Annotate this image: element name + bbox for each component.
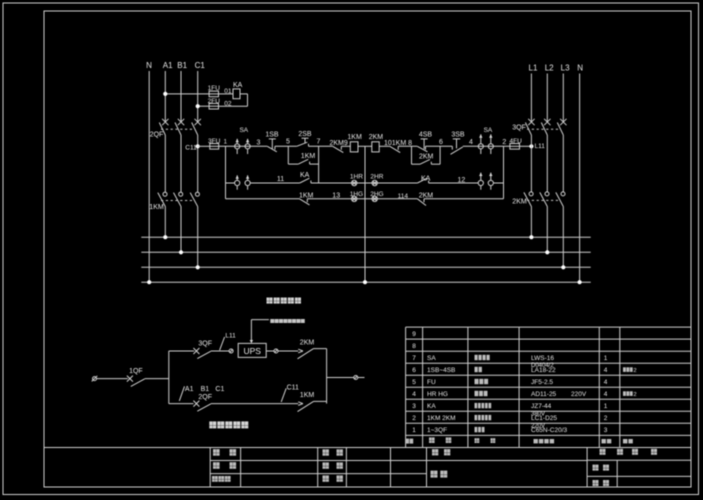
node A1 label xyxy=(163,61,173,70)
svg-text:1KM: 1KM xyxy=(347,134,362,141)
labels A1 B1 C1 one-line xyxy=(185,386,225,393)
wire L2 vertical middle xyxy=(546,135,548,192)
svg-text:220V: 220V xyxy=(571,391,587,398)
breaker 2QF pole A1 xyxy=(159,119,168,135)
contactor 1KM pole C1 xyxy=(190,192,199,206)
junction L2 bus2 xyxy=(545,250,549,254)
coil 2KM xyxy=(372,142,379,152)
table row 4 xyxy=(412,391,636,398)
UPS box xyxy=(238,343,266,357)
svg-text:A1: A1 xyxy=(163,61,173,70)
svg-text:SA: SA xyxy=(484,127,493,134)
table row 1 xyxy=(412,427,608,434)
node C1 label xyxy=(195,61,206,70)
breaker 3QF pole L2 xyxy=(541,119,550,135)
bus line 1 xyxy=(141,236,590,238)
wire node2 vertical xyxy=(503,146,505,199)
pushbutton 4SB NC contact xyxy=(417,146,427,152)
svg-text:8: 8 xyxy=(412,343,416,350)
svg-text:4: 4 xyxy=(604,391,608,398)
svg-text:AD11-25: AD11-25 xyxy=(531,391,557,398)
lamp 2HG xyxy=(372,196,377,201)
svg-text:1~3QF: 1~3QF xyxy=(427,427,447,434)
contact KA NO row2 left xyxy=(300,178,311,183)
svg-text:SA: SA xyxy=(239,127,248,134)
svg-text:1KM: 1KM xyxy=(300,392,315,399)
bus line 4 neutral xyxy=(141,281,590,283)
node 7 label xyxy=(317,138,321,145)
node L11 leader xyxy=(220,337,225,350)
wire A1 vertical lower xyxy=(164,207,166,238)
wire N right vertical xyxy=(579,74,581,283)
svg-text:1KM: 1KM xyxy=(301,153,316,160)
wire top branch left xyxy=(169,350,194,352)
UPS note text (Chinese) xyxy=(270,319,304,323)
svg-text:B1: B1 xyxy=(201,386,210,393)
svg-text:1HG: 1HG xyxy=(350,191,363,198)
svg-text:C1: C1 xyxy=(215,386,224,393)
table row 5 xyxy=(412,379,608,386)
terminal output xyxy=(354,376,358,380)
junction L3 bus3 xyxy=(561,265,565,269)
svg-text:2KM: 2KM xyxy=(419,153,434,160)
title one-line diagram (Chinese) xyxy=(209,421,248,428)
fuse 4FU label xyxy=(510,138,523,145)
contactor 1KM pole A1 xyxy=(158,192,167,206)
svg-text:380V: 380V xyxy=(531,411,545,417)
contact 1KM NC row3 xyxy=(300,199,310,205)
fuse 1FU label xyxy=(208,85,221,92)
bus line 2 xyxy=(141,251,590,253)
wire row2 left xyxy=(226,182,235,184)
wire branchB right vertical xyxy=(439,146,441,164)
terminal UPS output xyxy=(274,349,278,353)
title schematic diagram (Chinese) xyxy=(267,298,302,304)
svg-text:HR HG: HR HG xyxy=(427,391,448,398)
fuse 3FU label xyxy=(208,138,221,145)
wire neutral vertical xyxy=(364,146,366,282)
node 114 label xyxy=(398,193,409,200)
breaker 2QF pole B1 xyxy=(175,119,184,135)
wire row2 mid xyxy=(311,182,418,184)
svg-text:2KM: 2KM xyxy=(300,340,315,347)
svg-text:1SB~4SB: 1SB~4SB xyxy=(427,367,455,374)
contact 2KM NC row3 xyxy=(417,199,426,206)
wire A1 vertical middle xyxy=(164,135,166,192)
svg-text:2KM: 2KM xyxy=(369,134,384,141)
breaker 3QF pole L3 xyxy=(557,119,566,135)
node L3 label xyxy=(561,63,570,72)
contact KA label row2 left xyxy=(300,172,310,179)
breaker 1QF label xyxy=(129,368,143,375)
svg-text:L3: L3 xyxy=(561,63,570,72)
wire branchB bottom right xyxy=(431,163,440,165)
wire to 1KM coil xyxy=(341,145,350,147)
node L11 label xyxy=(535,143,546,150)
svg-text:N: N xyxy=(577,63,583,72)
svg-text:UPS: UPS xyxy=(243,346,261,356)
wire 2SB to 2KM interlock xyxy=(309,145,333,147)
svg-text:2QF: 2QF xyxy=(150,132,164,139)
svg-text:1: 1 xyxy=(412,427,416,434)
switch SA right contact a xyxy=(478,134,483,154)
svg-text:KA: KA xyxy=(421,175,431,182)
breaker 2QF one-line label xyxy=(198,394,212,401)
junction B1 bus2 xyxy=(179,250,183,254)
svg-text:114: 114 xyxy=(398,193,409,200)
svg-text:4: 4 xyxy=(604,367,608,374)
lamp 1HR label xyxy=(350,174,363,181)
bus line 3 xyxy=(141,266,590,268)
svg-text:5: 5 xyxy=(286,139,290,146)
svg-text:13: 13 xyxy=(332,193,340,200)
wire branchA bottom left xyxy=(288,163,298,165)
svg-text:1KM 2KM: 1KM 2KM xyxy=(427,415,456,422)
svg-text:7: 7 xyxy=(412,355,416,362)
node 02 label xyxy=(224,101,232,108)
switch SA right row2 contact b xyxy=(488,173,493,190)
wire L2 vertical lower xyxy=(546,207,548,253)
breaker 3QF one-line label xyxy=(198,341,212,348)
title block label jiao-dui xyxy=(323,449,343,455)
lamp 1HG label xyxy=(350,191,363,198)
contact 1KM NO label xyxy=(301,153,316,160)
wire row3 mid xyxy=(307,198,417,200)
fuse 2FU label xyxy=(208,98,221,105)
svg-text:2QF: 2QF xyxy=(198,394,212,401)
lamp 1HG xyxy=(352,196,357,201)
coil 1KM label xyxy=(347,134,362,141)
relay coil KA xyxy=(233,89,240,99)
node C11 leader xyxy=(281,388,286,402)
title block grid xyxy=(44,448,691,488)
svg-text:2HR: 2HR xyxy=(370,174,383,181)
node C11 label xyxy=(185,144,197,151)
contact 2KM NO aux xyxy=(420,159,431,164)
wire right collector vertical xyxy=(326,349,328,404)
wire 2QF to 1KM xyxy=(211,403,298,405)
wire 4FU to L1 xyxy=(520,145,532,147)
svg-text:1KM: 1KM xyxy=(149,204,164,211)
breaker 2QF label xyxy=(150,132,164,139)
svg-text:1: 1 xyxy=(604,355,608,362)
wire L3 vertical upper xyxy=(562,74,564,123)
wire C1 vertical lower xyxy=(197,207,199,268)
pushbutton 2SB cap xyxy=(302,138,309,143)
switch SA left label xyxy=(239,127,248,134)
svg-text:L11: L11 xyxy=(535,143,546,150)
wire 3FU to SA xyxy=(219,145,268,147)
svg-text:JF5-2.5: JF5-2.5 xyxy=(531,379,553,386)
wire L1 vertical middle xyxy=(530,135,532,192)
svg-text:2: 2 xyxy=(634,368,637,374)
wire split vertical xyxy=(168,351,170,404)
node 2 label xyxy=(502,139,506,146)
wire branchB bottom left xyxy=(412,163,421,165)
node L2 label xyxy=(545,63,554,72)
switch SA left row2 contact b xyxy=(245,175,250,189)
wire C11 to 3FU xyxy=(198,145,210,147)
title block label tu-hao xyxy=(593,480,610,486)
svg-text:3: 3 xyxy=(604,427,608,434)
node 13 label xyxy=(332,193,340,200)
node C11 one-line label xyxy=(287,384,299,391)
wire 1SB to 2SB xyxy=(275,145,297,147)
wire L1 vertical upper xyxy=(530,74,532,123)
svg-text:2: 2 xyxy=(502,139,506,146)
contactor 1KM linkage xyxy=(161,200,193,202)
svg-text:1QF: 1QF xyxy=(129,368,143,375)
svg-text:4: 4 xyxy=(469,139,473,146)
switch SA left row2 contact a xyxy=(235,175,240,189)
contact KA label row2 right xyxy=(421,175,431,182)
switch SA right contact b xyxy=(488,134,493,154)
pushbutton 3SB label xyxy=(451,131,465,138)
table row 6 xyxy=(412,367,636,374)
lamp 2HG label xyxy=(370,191,383,198)
wire UPS output xyxy=(266,350,274,352)
fuse 4FU xyxy=(510,144,520,150)
svg-text:4: 4 xyxy=(412,391,416,398)
svg-text:11: 11 xyxy=(277,176,284,183)
relay KA label xyxy=(233,82,243,89)
title block label zhi-tu xyxy=(323,475,343,481)
svg-text:4: 4 xyxy=(604,379,608,386)
nodes 10 1KM 8 label xyxy=(384,140,412,147)
wire L3 vertical lower xyxy=(562,207,564,268)
node 3 label xyxy=(257,139,261,146)
breaker 1QF xyxy=(127,376,145,387)
node 5 label xyxy=(286,139,290,146)
wire node7 vertical xyxy=(318,146,320,183)
table component list grid xyxy=(406,327,691,447)
contactor 2KM linkage xyxy=(527,199,559,201)
table header row xyxy=(406,437,633,443)
fuse 3FU xyxy=(210,144,219,150)
wire left feeder vertical xyxy=(225,146,227,199)
contact 1KM one-line xyxy=(298,401,327,411)
wire output stub xyxy=(358,377,365,379)
wire output xyxy=(327,377,354,379)
svg-text:1FU: 1FU xyxy=(208,85,221,92)
UPS note arrow xyxy=(250,320,269,344)
svg-text:L1: L1 xyxy=(529,63,538,72)
wire 3QF to UPS xyxy=(211,350,229,352)
svg-text:JZ7-44: JZ7-44 xyxy=(531,403,552,410)
lamp 1HR xyxy=(352,180,357,185)
svg-text:3QF: 3QF xyxy=(512,125,526,132)
switch SA right label xyxy=(484,127,493,134)
switch SA right row2 contact a xyxy=(478,173,483,190)
svg-text:3FU: 3FU xyxy=(208,138,221,145)
title block label sheets xyxy=(600,449,658,455)
svg-text:KA: KA xyxy=(427,403,436,410)
wire L1 vertical lower xyxy=(530,207,532,238)
contact 2KM NO label xyxy=(419,153,434,160)
wire C1 vertical middle xyxy=(197,135,199,192)
contact 2KM9 label xyxy=(330,140,348,147)
switch SA left contact b xyxy=(245,139,250,154)
svg-text:2HG: 2HG xyxy=(370,191,383,198)
svg-text:SA: SA xyxy=(427,355,436,362)
breaker 3QF linkage xyxy=(527,128,561,130)
svg-text:220V: 220V xyxy=(531,423,545,429)
terminal left xyxy=(92,376,98,382)
pushbutton 1SB NC contact xyxy=(267,146,277,152)
contact 1KM NC interlock xyxy=(390,146,400,152)
node L1 label xyxy=(529,63,538,72)
table row 3 xyxy=(412,403,608,417)
wire 4SB to 3SB xyxy=(426,145,453,147)
svg-text:N: N xyxy=(146,61,152,70)
node B1 label xyxy=(177,61,187,70)
contactor 2KM pole L3 xyxy=(556,192,565,207)
svg-text:12: 12 xyxy=(458,177,466,184)
svg-text:C1: C1 xyxy=(195,61,206,70)
breaker 2QF one-line xyxy=(193,401,211,412)
wire 2FU to C1 xyxy=(198,105,209,107)
junction C1 tap xyxy=(196,104,200,108)
svg-text:1SB: 1SB xyxy=(265,131,279,138)
wire C1 vertical upper xyxy=(197,71,199,122)
node 11 label xyxy=(277,176,284,183)
wire A1 to 1FU xyxy=(165,93,209,95)
contact 2KM one-line label xyxy=(300,340,315,347)
wire row3 left xyxy=(226,198,300,200)
node N right label xyxy=(577,63,583,72)
svg-text:3SB: 3SB xyxy=(451,131,465,138)
title block label fu-ze-ren xyxy=(212,476,231,482)
table row 2 xyxy=(412,415,608,429)
svg-text:KA: KA xyxy=(300,172,310,179)
contact 2KM one-line xyxy=(298,349,327,359)
wire 3SB to SA right xyxy=(463,145,510,147)
wire branchA bottom right xyxy=(310,163,319,165)
svg-text:LWS-16: LWS-16 xyxy=(531,355,554,362)
contact 2KM NC interlock xyxy=(333,146,344,152)
wire B1 vertical lower xyxy=(180,207,182,253)
svg-text:6: 6 xyxy=(439,139,443,146)
node L11 one-line label xyxy=(225,333,236,340)
pushbutton 1SB cap xyxy=(269,139,276,149)
wire A1 vertical upper xyxy=(164,71,166,122)
lamp 2HR xyxy=(372,180,377,185)
pushbutton 4SB label xyxy=(419,132,433,139)
node 1 label xyxy=(224,139,228,145)
node 01 label xyxy=(224,88,232,95)
svg-text:KA: KA xyxy=(233,82,243,89)
pushbutton 1SB label xyxy=(265,131,279,138)
svg-text:C11: C11 xyxy=(185,144,197,151)
svg-text:5: 5 xyxy=(412,379,416,386)
wire 2KM coil to 1KM NC xyxy=(379,145,390,147)
svg-text:6: 6 xyxy=(412,367,416,374)
wire L2 vertical upper xyxy=(546,74,548,123)
contactor 2KM pole L1 xyxy=(524,192,533,207)
wire bottom branch left xyxy=(169,403,194,405)
contact 1KM NC row3 label xyxy=(299,193,314,200)
svg-text:2SB: 2SB xyxy=(298,131,312,138)
wire branchA left vertical xyxy=(287,146,289,164)
svg-text:2KM: 2KM xyxy=(512,198,527,205)
contact 1KM one-line label xyxy=(300,392,315,399)
svg-text:2: 2 xyxy=(412,415,416,422)
table row 7 xyxy=(412,355,608,369)
svg-text:A1: A1 xyxy=(185,386,194,393)
title block label gong-cheng xyxy=(432,449,450,455)
fuse 1FU xyxy=(209,91,218,97)
junction N left bus4 xyxy=(147,280,151,284)
node 12 label xyxy=(458,177,466,184)
contactor 1KM pole B1 xyxy=(174,192,183,206)
wire N left vertical xyxy=(148,71,150,282)
pushbutton 3SB NO contact xyxy=(451,146,463,154)
title block label shen-ding xyxy=(213,449,236,456)
contactor 1KM label xyxy=(149,204,164,211)
svg-text:7: 7 xyxy=(317,138,321,145)
node 4 label xyxy=(469,139,473,146)
junction neutral bus4 xyxy=(363,280,367,284)
svg-text:C11: C11 xyxy=(287,384,299,391)
svg-text:2FU: 2FU xyxy=(208,98,221,105)
pushbutton 3SB cap xyxy=(453,139,460,149)
wire 1QF to split xyxy=(145,378,169,380)
svg-text:4FU: 4FU xyxy=(510,138,523,145)
svg-text:4SB: 4SB xyxy=(419,132,433,139)
lamp 2HR label xyxy=(370,174,383,181)
title block label she-ji xyxy=(323,462,343,468)
svg-text:L11: L11 xyxy=(225,333,236,340)
contact KA NO row2 right xyxy=(417,178,428,183)
node C11 junction xyxy=(196,144,200,148)
breaker 2QF linkage xyxy=(161,128,195,130)
switch SA left contact a xyxy=(235,139,240,154)
coil 2KM label xyxy=(369,134,384,141)
wire L3 vertical middle xyxy=(562,135,564,192)
wire row2 to KA contact xyxy=(250,182,300,184)
wire to 4SB xyxy=(398,145,417,147)
svg-text:3: 3 xyxy=(412,403,416,410)
table row 9 xyxy=(412,331,416,338)
wire row2 to corner xyxy=(493,182,503,184)
fuse 2FU xyxy=(209,103,218,109)
svg-text:FU: FU xyxy=(427,379,436,386)
svg-text:L2: L2 xyxy=(545,63,554,72)
terminal UPS input xyxy=(229,349,233,353)
svg-text:1: 1 xyxy=(604,403,608,410)
junction A1 tap xyxy=(163,92,167,96)
svg-text:D0404/2: D0404/2 xyxy=(531,363,554,369)
junction N right bus4 xyxy=(578,280,582,284)
contact 2KM NC row3 label xyxy=(419,193,434,200)
breaker 2QF pole C1 xyxy=(192,119,201,135)
svg-text:3: 3 xyxy=(257,139,261,146)
wire B1 vertical upper xyxy=(180,71,182,122)
wire B1 vertical middle xyxy=(180,135,182,192)
svg-text:2: 2 xyxy=(634,392,637,398)
svg-text:B1: B1 xyxy=(177,61,187,70)
wire KA coil right xyxy=(219,94,248,106)
wire row3 right xyxy=(424,198,504,200)
svg-text:1HR: 1HR xyxy=(350,174,363,181)
wire to 2KM one-line xyxy=(278,350,298,352)
pushbutton 2SB NO contact xyxy=(297,142,309,146)
junction node L11 xyxy=(529,144,533,148)
node 6 label xyxy=(439,139,443,146)
title block label tu-ming xyxy=(431,471,448,478)
pushbutton 4SB cap xyxy=(421,139,428,149)
svg-text:02: 02 xyxy=(224,101,232,108)
